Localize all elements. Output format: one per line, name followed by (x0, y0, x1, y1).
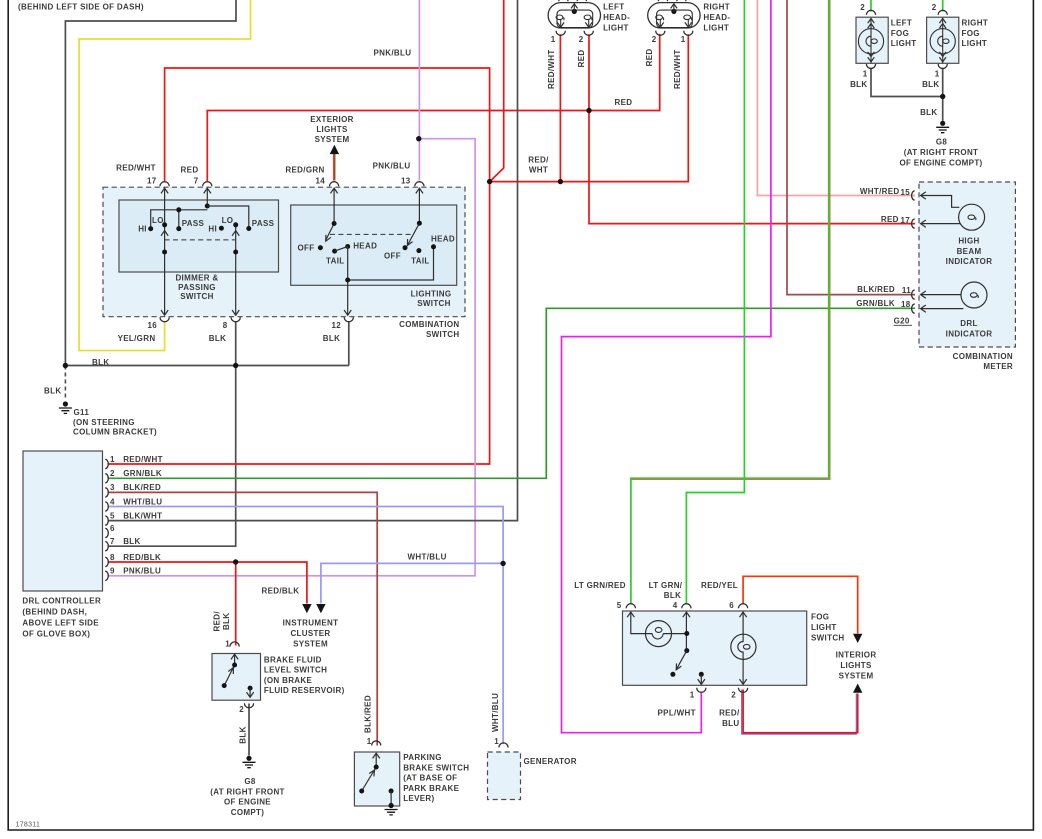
svg-text:GRN/BLK: GRN/BLK (856, 299, 895, 308)
dimmer HI left contact (148, 226, 153, 231)
svg-text:LIGHTS: LIGHTS (840, 661, 872, 670)
dimmer left LO contact (162, 222, 167, 227)
meter pin 11 lead (921, 294, 962, 296)
dimmer and passing switch box (119, 200, 279, 272)
svg-text:16: 16 (147, 321, 157, 330)
svg-text:RIGHT: RIGHT (703, 3, 730, 12)
dimmer left arm arrow (161, 231, 168, 236)
svg-text:WHT/BLU: WHT/BLU (491, 693, 500, 732)
junction BLK fog lights (940, 94, 945, 99)
right headlight right filament (684, 15, 692, 20)
dimmer wiring HI/PASS left (151, 206, 249, 229)
wire RED/BLU fog switch pin 2 to interior lights arrow (743, 690, 858, 733)
svg-text:PARK BRAKE: PARK BRAKE (403, 784, 459, 793)
svg-text:BLU: BLU (722, 719, 739, 728)
dimmer switch pin17-pin16 line (164, 189, 166, 315)
svg-text:RIGHT: RIGHT (962, 18, 989, 27)
left headlight connector body (548, 3, 600, 28)
dimmer HI right contact (219, 226, 224, 231)
brake fluid pin 1 arc (230, 642, 239, 647)
fog switch pin 5 lead (631, 612, 653, 633)
lighting HEAD left contact (345, 244, 350, 249)
fog switch bulb to pin4 link (663, 633, 687, 635)
brake fluid pivot dot (232, 663, 237, 668)
svg-text:PASS: PASS (252, 219, 275, 228)
svg-text:2: 2 (860, 3, 865, 12)
DRL pin 8 arc (105, 557, 108, 566)
left fog light internal lead (870, 18, 872, 64)
junction RED/WHT left headlight (558, 179, 563, 184)
pin 13 arc (415, 182, 424, 187)
svg-text:18: 18 (901, 300, 911, 309)
svg-text:RED: RED (577, 49, 586, 67)
lighting HEAD right contact (431, 244, 436, 249)
fog switch pin 6 arc (739, 604, 748, 609)
svg-text:GRN/BLK: GRN/BLK (123, 469, 162, 478)
svg-text:(AT RIGHT FRONT: (AT RIGHT FRONT (904, 148, 979, 157)
svg-text:1: 1 (551, 35, 556, 44)
right headlight left filament (656, 15, 664, 20)
svg-text:DRL: DRL (960, 319, 977, 328)
svg-text:8: 8 (110, 553, 115, 562)
wire GRN right fog light pin 2 (942, 0, 944, 12)
combination switch dashed box (103, 187, 465, 317)
generator pin 1 arc (499, 743, 508, 748)
lighting mechanical link dashed (330, 233, 413, 235)
arrow instrument cluster WHT/BLU (316, 604, 325, 613)
DRL indicator bulb (961, 282, 987, 308)
svg-text:PPL/WHT: PPL/WHT (658, 709, 696, 718)
dimmer pin8 line (235, 225, 237, 315)
right fog light internal lead (942, 18, 944, 64)
svg-text:1: 1 (935, 69, 940, 78)
meter pin 18 arc (912, 304, 915, 313)
svg-text:INTERIOR: INTERIOR (836, 651, 877, 660)
svg-text:BLK: BLK (123, 537, 140, 546)
svg-text:INDICATOR: INDICATOR (946, 257, 993, 266)
wire RED/BLK DRL pin 8 to instrument cluster arrow (108, 562, 307, 604)
svg-text:WHT/BLU: WHT/BLU (408, 553, 447, 562)
pin 8 arc (231, 317, 240, 322)
dimmer right LO contact (233, 222, 238, 227)
svg-text:YEL/GRN: YEL/GRN (118, 334, 156, 343)
fog switch pivot dot (684, 648, 689, 653)
fog switch arm contact (670, 672, 675, 677)
svg-text:FOG: FOG (811, 613, 829, 622)
svg-text:RED: RED (615, 98, 633, 107)
svg-text:14: 14 (315, 177, 325, 186)
svg-text:2: 2 (932, 3, 937, 12)
svg-text:SWITCH: SWITCH (417, 299, 451, 308)
lighting head bus junction (345, 278, 350, 283)
svg-text:BLK: BLK (922, 80, 939, 89)
svg-text:GENERATOR: GENERATOR (524, 757, 577, 766)
wire RED pin 7 up and over to right headlight pin 2 (207, 34, 659, 181)
ground G8 fog lights (936, 121, 949, 133)
wire RED/GRN combination pin 14 to exterior lights arrow (334, 152, 336, 181)
wire BLK horizontal ground bus at y=365.5 (65, 365, 348, 367)
fog switch pin 2 arc (739, 688, 748, 693)
left headlight top feed dot and arrow (572, 9, 577, 14)
parking brake switch box (354, 752, 399, 806)
wire LT GRN/BLK from top to fog light switch pin 4 (686, 0, 744, 605)
svg-text:2: 2 (239, 705, 244, 714)
wire BLK right fog light pin 1 to G8 ground (942, 68, 944, 121)
svg-text:LO: LO (152, 216, 164, 225)
high beam indicator bulb (959, 204, 985, 230)
pin 14 arc (330, 182, 339, 187)
fog switch pin 1 contact and lead (699, 672, 704, 677)
svg-text:HI: HI (138, 224, 147, 233)
lighting switch pin 14 lead and arm (326, 189, 335, 241)
svg-text:FOG: FOG (891, 29, 909, 38)
fog switch arm (676, 651, 686, 670)
svg-text:BLK/RED: BLK/RED (123, 483, 161, 492)
svg-text:LIGHTING: LIGHTING (411, 289, 452, 298)
dimmer left pivot (162, 250, 167, 255)
svg-text:LIGHT: LIGHT (811, 623, 837, 632)
svg-text:BLK: BLK (920, 108, 937, 117)
DRL pin 6 arc (105, 528, 108, 537)
wire BLK combination pin 8 down to DRL pin 7 (108, 322, 236, 547)
svg-text:9: 9 (110, 567, 115, 576)
svg-text:FOG: FOG (962, 29, 980, 38)
wire RED/YEL fog switch pin 6 to interior lights arrow (743, 576, 858, 633)
junction RED/BLK (233, 559, 238, 564)
svg-text:1: 1 (367, 737, 372, 746)
fog switch pin 4 arc (682, 604, 691, 609)
svg-text:2: 2 (731, 690, 736, 699)
svg-text:LEVEL SWITCH: LEVEL SWITCH (264, 666, 327, 675)
parking brake lead and arm (362, 754, 377, 792)
svg-text:(ON BRAKE: (ON BRAKE (264, 676, 313, 685)
svg-text:INSTRUMENT: INSTRUMENT (283, 618, 339, 627)
wire PNK/BLU branch to DRL pin 9 (108, 139, 476, 576)
svg-text:COMBINATION: COMBINATION (399, 320, 459, 329)
dimmer PASS left junction (176, 207, 181, 212)
left fog light pin 2 arc (866, 10, 875, 15)
lighting pivot right (417, 221, 422, 226)
arrow interior lights system up (853, 684, 862, 693)
svg-text:OF GLOVE BOX): OF GLOVE BOX) (22, 629, 90, 638)
svg-text:BLK/RED: BLK/RED (857, 285, 895, 294)
svg-text:SWITCH: SWITCH (811, 633, 845, 642)
parking brake pivot dot (374, 765, 379, 770)
svg-text:1: 1 (863, 69, 868, 78)
svg-text:6: 6 (110, 524, 115, 533)
pin 12 arc (344, 317, 353, 322)
svg-text:RED/BLK: RED/BLK (123, 553, 161, 562)
svg-text:RED: RED (881, 215, 899, 224)
fog light switch box (623, 611, 807, 685)
parking brake ground contact and lead (389, 789, 394, 794)
pin 7 arc (203, 182, 212, 187)
pin 17 arc (160, 182, 169, 187)
svg-text:178311: 178311 (16, 821, 41, 828)
DRL pin 2 arc (105, 474, 108, 483)
svg-text:PNK/BLU: PNK/BLU (123, 567, 161, 576)
svg-text:RED/BLK: RED/BLK (262, 586, 300, 595)
svg-text:(AT RIGHT FRONT: (AT RIGHT FRONT (210, 787, 285, 796)
meter pin 17 arc (912, 219, 915, 228)
meter pin 18 lead (921, 308, 964, 310)
svg-text:(ON STEERING: (ON STEERING (73, 418, 135, 427)
dimmer pin7 junction dot (205, 204, 210, 209)
svg-text:12: 12 (331, 321, 341, 330)
svg-text:SYSTEM: SYSTEM (315, 135, 350, 144)
svg-text:TAIL: TAIL (326, 256, 345, 265)
svg-text:SYSTEM: SYSTEM (293, 639, 328, 648)
svg-text:11: 11 (902, 286, 911, 295)
DRL pin 1 arc (105, 459, 108, 468)
wire WHT/RED from top to combination meter pin 15 (757, 0, 915, 196)
svg-text:BRAKE FLUID: BRAKE FLUID (264, 655, 322, 664)
svg-text:4: 4 (110, 497, 115, 506)
wire LT GRN/RED from top to fog light switch pin 5 (631, 0, 829, 605)
svg-text:RED: RED (181, 166, 199, 175)
svg-text:PASSING: PASSING (178, 283, 216, 292)
svg-text:RED/: RED/ (719, 709, 740, 718)
svg-text:HEAD-: HEAD- (703, 13, 730, 22)
svg-text:1: 1 (690, 690, 695, 699)
wire PPL/WHT from top to fog light switch pin 1 (562, 0, 771, 733)
svg-text:13: 13 (401, 177, 411, 186)
DRL pin 9 arc (105, 571, 108, 580)
svg-text:OF ENGINE: OF ENGINE (224, 798, 271, 807)
svg-text:DIMMER &: DIMMER & (175, 274, 218, 283)
svg-text:LIGHT: LIGHT (962, 39, 988, 48)
left headlight right filament (584, 15, 592, 20)
lighting OFF right contact (403, 245, 408, 250)
svg-text:LIGHT: LIGHT (891, 39, 917, 48)
wire GRN left fog light pin 2 (870, 0, 872, 12)
svg-text:EXTERIOR: EXTERIOR (310, 115, 354, 124)
svg-text:1: 1 (225, 640, 230, 649)
right headlight top pin ticks (658, 0, 686, 1)
svg-text:2: 2 (579, 35, 584, 44)
wire RED/BLK branch down to brake fluid level switch pin 1 (235, 562, 237, 646)
generator dashed box (488, 752, 521, 800)
right fog light pin 2 arc (938, 10, 947, 15)
dimmer pin 7 lead (206, 189, 208, 207)
wire BLK left fog light pin 1 to junction (871, 68, 943, 97)
svg-text:BLK: BLK (92, 358, 109, 367)
svg-text:LIGHT: LIGHT (703, 24, 729, 33)
svg-text:7: 7 (194, 177, 199, 186)
svg-text:WHT/RED: WHT/RED (860, 187, 900, 196)
DRL pin 5 arc (105, 516, 108, 525)
svg-text:SYSTEM: SYSTEM (839, 672, 874, 681)
svg-text:COMPT): COMPT) (231, 808, 265, 817)
dimmer right arm arrow (232, 231, 239, 236)
arrow exterior lights system (330, 145, 339, 154)
svg-text:1: 1 (110, 455, 115, 464)
pin 16 arc (160, 317, 169, 322)
svg-text:FLUID RESERVOIR): FLUID RESERVOIR) (264, 686, 345, 695)
svg-text:RED/WHT: RED/WHT (116, 164, 156, 173)
left fog light box (856, 17, 888, 63)
svg-text:HI: HI (208, 224, 217, 233)
svg-text:COLUMN BRACKET): COLUMN BRACKET) (73, 427, 157, 436)
svg-text:2: 2 (652, 35, 657, 44)
wire BLK dashed drop to G11 ground (64, 366, 66, 401)
svg-text:HEAD-: HEAD- (603, 13, 630, 22)
svg-text:(BEHIND DASH,: (BEHIND DASH, (22, 607, 87, 616)
brake fluid pin 2 arc (244, 703, 253, 708)
DRL pin 3 arc (105, 488, 108, 497)
svg-text:LEFT: LEFT (891, 18, 912, 27)
DRL controller box (23, 451, 103, 591)
wire RED/WHT pin 17 up over to junction and down to DRL pin 1 (108, 68, 490, 464)
svg-text:DRL CONTROLLER: DRL CONTROLLER (22, 596, 101, 605)
svg-text:RED/: RED/ (528, 156, 549, 165)
right headlight pin arcs (656, 31, 665, 36)
svg-text:G20: G20 (894, 317, 910, 326)
svg-text:RED/GRN: RED/GRN (285, 166, 324, 175)
fog switch pin6-pin2 line (742, 612, 744, 634)
ground G8 brake fluid (243, 756, 256, 768)
dimmer PASS right contact (246, 226, 251, 231)
svg-text:INDICATOR: INDICATOR (946, 329, 993, 338)
svg-text:G11: G11 (74, 408, 90, 417)
right fog light bulb (930, 29, 955, 54)
parking brake arm end contact (359, 789, 364, 794)
DRL pin 7 arc (105, 542, 108, 551)
svg-text:BLK/WHT: BLK/WHT (123, 511, 162, 520)
svg-text:COMBINATION: COMBINATION (953, 352, 1013, 361)
lighting TAIL right contact (416, 248, 421, 253)
junction RED/WHT main (487, 179, 492, 184)
svg-text:BLK/RED: BLK/RED (363, 695, 372, 733)
lighting TAIL left contact (332, 249, 337, 254)
right headlight connector body (648, 3, 700, 28)
svg-text:RED/WHT: RED/WHT (547, 49, 556, 89)
wire WHT/BLU DRL pin 4 to generator pin 1 (108, 507, 504, 745)
svg-text:OFF: OFF (298, 243, 315, 252)
meter pin 15 lead (921, 196, 960, 208)
wire PNK/BLU from top to combination pin 13 (418, 0, 420, 181)
junction PNK/BLU (416, 136, 421, 141)
svg-text:LIGHTS: LIGHTS (316, 125, 348, 134)
svg-text:PARKING: PARKING (403, 753, 442, 762)
svg-text:WHT: WHT (529, 166, 548, 175)
svg-text:LO: LO (222, 216, 234, 225)
svg-text:(BEHIND LEFT SIDE OF DASH): (BEHIND LEFT SIDE OF DASH) (18, 3, 144, 12)
svg-text:PNK/BLU: PNK/BLU (373, 162, 411, 171)
svg-text:SWITCH: SWITCH (180, 292, 214, 301)
svg-text:PASS: PASS (182, 219, 205, 228)
right headlight top feed dot and arrow (671, 9, 676, 14)
junction G11 bus left (63, 363, 68, 368)
meter pin 11 arc (912, 290, 915, 299)
svg-text:RED/: RED/ (213, 611, 222, 632)
wire YEL/GRN from top to combination switch pin 16 (79, 0, 250, 351)
lighting switch pin 13 lead and arm (408, 189, 420, 246)
dimmer PASS left contact (176, 226, 181, 231)
svg-text:LIGHT: LIGHT (603, 24, 629, 33)
svg-text:BEAM: BEAM (957, 247, 982, 256)
fog switch link dot (684, 631, 689, 636)
wire BLK/RED from top to combination meter pin 11 (787, 0, 915, 295)
svg-text:17: 17 (900, 216, 910, 225)
svg-text:HIGH: HIGH (958, 237, 979, 246)
fog switch pin 1 arc (697, 688, 706, 693)
wire BLK combination pin 12 down to bus (348, 322, 350, 366)
lighting OFF left contact (318, 245, 323, 250)
svg-text:(AT BASE OF: (AT BASE OF (403, 774, 457, 783)
wire RED/WHT branch from junction to headlight pins 1 (490, 34, 689, 181)
svg-text:LEFT: LEFT (603, 3, 624, 12)
svg-text:WHT/BLU: WHT/BLU (123, 497, 162, 506)
junction BLK bus pin8 (233, 363, 238, 368)
fog switch pin 4 lead (685, 612, 687, 650)
svg-text:7: 7 (110, 537, 115, 546)
svg-text:TAIL: TAIL (411, 256, 430, 265)
svg-text:RED/YEL: RED/YEL (701, 581, 738, 590)
brake fluid arm end contact (222, 683, 227, 688)
left fog light pin 1 arc (866, 64, 875, 69)
wire WHT/BLU branch to instrument cluster arrow (321, 563, 503, 603)
junction RED headlights (586, 108, 591, 113)
svg-text:METER: METER (983, 362, 1013, 371)
svg-text:4: 4 (673, 601, 678, 610)
svg-text:BLK: BLK (222, 613, 231, 630)
svg-text:ABOVE LEFT SIDE: ABOVE LEFT SIDE (22, 618, 99, 627)
svg-text:HEAD: HEAD (431, 234, 455, 243)
fog switch illumination bulb (646, 621, 672, 647)
svg-text:LEVER): LEVER) (403, 794, 434, 803)
junction WHT/BLU (500, 561, 505, 566)
left headlight left filament (556, 15, 564, 20)
svg-text:1: 1 (494, 737, 499, 746)
parking brake pin 1 arc (372, 741, 381, 746)
svg-text:BLK: BLK (664, 591, 681, 600)
svg-text:RED/WHT: RED/WHT (123, 455, 163, 464)
lighting switch box (291, 205, 457, 285)
svg-text:G8: G8 (936, 137, 948, 146)
wire RED/WHT left headlight pin 1 drop (559, 34, 561, 181)
svg-text:5: 5 (110, 511, 115, 520)
left fog light bulb (858, 29, 883, 54)
meter pin 17 lead (921, 223, 961, 225)
right fog light box (927, 17, 959, 63)
wire BLK/WHT from top to DRL pin 5 (108, 0, 518, 521)
svg-text:BLK: BLK (850, 80, 867, 89)
wire BLK from top to G11 junction (65, 0, 236, 366)
ground G11 (59, 401, 72, 413)
svg-text:6: 6 (729, 601, 734, 610)
svg-text:OFF: OFF (384, 252, 401, 261)
svg-text:LT GRN/: LT GRN/ (649, 581, 683, 590)
svg-text:RED: RED (645, 48, 654, 66)
dimmer right pivot (233, 250, 238, 255)
DRL pin 4 arc (105, 502, 108, 511)
svg-text:BLK: BLK (209, 334, 226, 343)
wire BLK/RED DRL pin 3 to parking brake switch pin 1 (108, 492, 378, 745)
left headlight top pin ticks (559, 0, 587, 1)
arrow interior lights system down (853, 634, 862, 643)
ground parking brake switch (385, 803, 398, 815)
svg-text:LT GRN/RED: LT GRN/RED (574, 581, 626, 590)
meter pin 15 arc (912, 191, 915, 200)
svg-text:PNK/BLU: PNK/BLU (374, 49, 412, 58)
wire RED/BLU blue stripe (742, 690, 857, 735)
lighting TAIL-HEAD link and head bus (335, 247, 434, 315)
svg-text:RED/WHT: RED/WHT (673, 49, 682, 89)
right fog light pin 1 arc (938, 64, 947, 69)
svg-text:5: 5 (617, 601, 622, 610)
wire GRN/BLK DRL pin 2 to combination meter pin 18 (108, 308, 916, 478)
